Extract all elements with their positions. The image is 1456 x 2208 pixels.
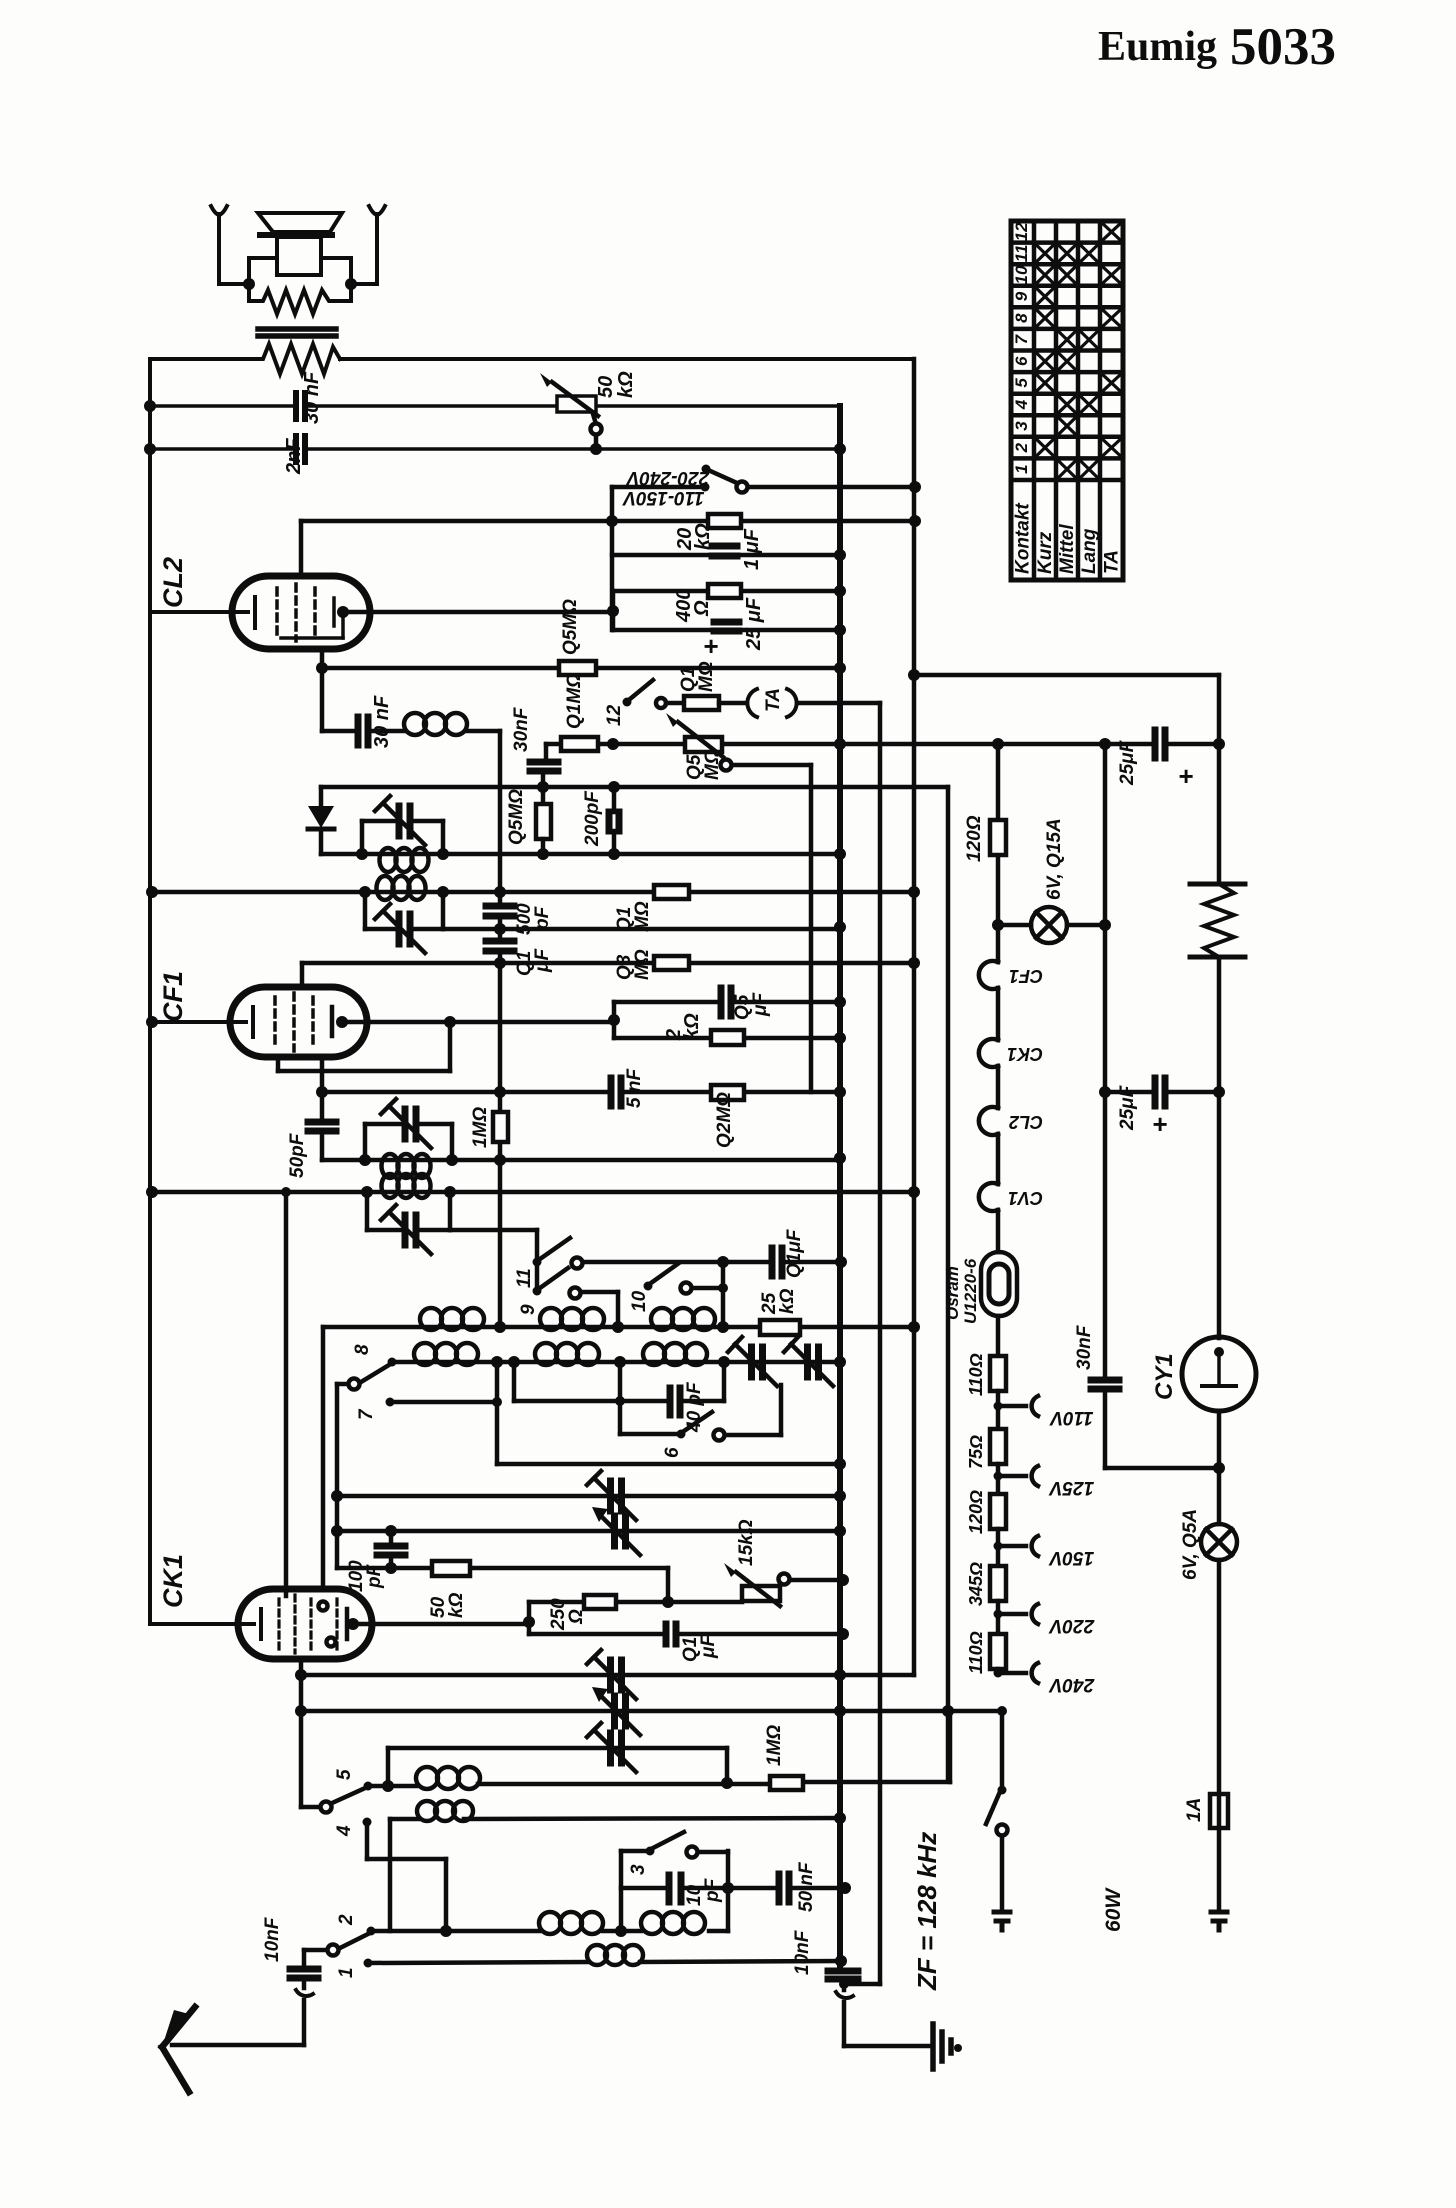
- node tank2 right: [437, 886, 449, 898]
- wire CK1 osc grid leg x=286: [284, 1192, 289, 1596]
- svg-text:CF1: CF1: [158, 971, 188, 1022]
- wire CL2 bottom lead x=322: [320, 649, 325, 731]
- resistor 120 Ohm heater: [990, 820, 1006, 855]
- svg-text:5: 5: [334, 1769, 355, 1780]
- node 388,1786: [382, 1780, 394, 1792]
- svg-text:1: 1: [336, 1967, 357, 1978]
- mains lead end: [1211, 1912, 1227, 1930]
- node CK1 anode bracket: [523, 1616, 535, 1628]
- antenna symbol: [162, 2007, 195, 2092]
- node screen line at x=915: [909, 515, 921, 527]
- node 15k wiper at bus: [837, 1574, 849, 1586]
- svg-text:+: +: [1178, 761, 1193, 791]
- wire AVC line y=787: [321, 785, 948, 790]
- node gang d at x=948: [942, 1705, 954, 1717]
- node 25uF at bus: [834, 624, 846, 636]
- trimmer capacitor padder 1: [728, 1337, 777, 1386]
- capacitor 10pF: [669, 1875, 681, 1902]
- tap 240V: [994, 1663, 1039, 1683]
- capacitor 25uF cathode: [714, 622, 739, 631]
- node 1105,744: [1099, 738, 1111, 750]
- svg-text:12: 12: [604, 704, 625, 726]
- wire CY1 cathode down: [1217, 1411, 1222, 1524]
- svg-text:9: 9: [518, 1304, 539, 1315]
- node 5nF line at bus: [834, 1086, 846, 1098]
- wire 0.1M line y=744: [546, 744, 1219, 760]
- node x=500 y=892: [494, 886, 506, 898]
- node tank4 left: [361, 1186, 373, 1198]
- node 301,1711: [295, 1705, 307, 1717]
- wire row A left leg to CK1: [321, 1327, 326, 1590]
- coil antenna MW: [417, 1801, 473, 1821]
- capacitor 5nF: [611, 1078, 621, 1106]
- wire 1uF line y=555: [612, 553, 840, 558]
- node 2k at bus: [834, 1032, 846, 1044]
- svg-text:1A: 1A: [1184, 1798, 1205, 1822]
- label 25uF-2 +: [1117, 1084, 1167, 1139]
- coil osc SW a: [539, 1912, 603, 1934]
- node 998,925: [992, 919, 1004, 931]
- wire bracket 400ohm/25uF x=613: [611, 591, 616, 630]
- resistor 250 Ohm: [584, 1595, 616, 1609]
- svg-text:Q1μF: Q1μF: [784, 1228, 805, 1278]
- wire antenna coil top bracket y=1748: [388, 1748, 727, 1786]
- wire x=950 to mains line: [948, 1711, 953, 1782]
- svg-text:10nF: 10nF: [792, 1929, 813, 1975]
- node 286,1192: [281, 1187, 291, 1197]
- CL2 grids (dashed): [277, 584, 315, 641]
- capacitor 30nF (output): [296, 393, 305, 419]
- svg-text:CL2: CL2: [158, 557, 188, 608]
- node 497,1362: [491, 1356, 503, 1368]
- wire 50k line y=1568: [337, 1568, 668, 1602]
- wire detector line y=854: [321, 852, 840, 857]
- wire chain seg: [996, 1464, 1001, 1494]
- svg-text:4: 4: [334, 1825, 355, 1837]
- wire TA to x=880: [799, 701, 880, 706]
- svg-text:Ω: Ω: [566, 1609, 587, 1625]
- svg-text:25 μF: 25 μF: [743, 597, 765, 651]
- CL2 anode and internal connection: [281, 598, 343, 638]
- svg-text:12: 12: [1012, 222, 1031, 241]
- svg-text:8: 8: [1012, 313, 1031, 323]
- node CF1 anode: [336, 1016, 348, 1028]
- svg-text:Mittel: Mittel: [1057, 524, 1078, 574]
- node 497,1402: [492, 1397, 502, 1407]
- speaker terminal hook left: [211, 206, 249, 284]
- tube CK1: [238, 1589, 372, 1659]
- wire TA jack: [719, 701, 745, 706]
- tube CL2: [232, 576, 370, 649]
- tuned circuit IF3 secondary: trimmer cap: [362, 796, 443, 854]
- svg-text:+: +: [1152, 1109, 1167, 1139]
- svg-text:110Ω: 110Ω: [966, 1353, 986, 1396]
- label Q1 uF: [514, 948, 553, 976]
- label 50 kOhm: [595, 371, 637, 398]
- switch contact 5: [301, 1782, 373, 1813]
- wire 5nF line y=1092: [322, 1090, 840, 1095]
- node row A at x=914: [908, 1321, 920, 1333]
- node 998,744: [992, 738, 1004, 750]
- wire HT bus x=840: [837, 406, 843, 1969]
- svg-text:7: 7: [1012, 333, 1031, 344]
- diode detector: [308, 787, 334, 854]
- svg-text:30 nF: 30 nF: [301, 371, 323, 424]
- svg-text:μF: μF: [532, 948, 553, 973]
- wire tank3 line y=1160: [365, 1158, 840, 1163]
- node band line at bus: [834, 1458, 846, 1470]
- resistor 1 MOhm vertical: [493, 1112, 508, 1142]
- variable capacitor gang d: [592, 1687, 640, 1735]
- resistor 0.3 MOhm: [654, 956, 689, 970]
- svg-text:μF: μF: [698, 1634, 719, 1659]
- wire IF2 line y=892: [152, 890, 914, 895]
- node 614,854: [608, 848, 620, 860]
- wire heater seg1: [996, 988, 1001, 1040]
- svg-text:6V, Q5A: 6V, Q5A: [1180, 1509, 1201, 1580]
- oscillator tank3 coil: [382, 1154, 431, 1178]
- switch contact 12: [623, 680, 685, 708]
- svg-text:TA: TA: [763, 688, 784, 712]
- svg-text:30 nF: 30 nF: [371, 695, 393, 748]
- wire tank4 bottom to band switch: [450, 1230, 537, 1291]
- capacitor 200pF: [609, 812, 619, 831]
- svg-text:Q2MΩ: Q2MΩ: [714, 1092, 735, 1148]
- wire 200pF leads: [612, 787, 617, 854]
- fuse 1A: [1210, 1794, 1228, 1828]
- label 50 kOhm osc: [428, 1592, 467, 1618]
- node 723,1327: [717, 1321, 729, 1333]
- svg-text:Q5MΩ: Q5MΩ: [560, 599, 581, 655]
- resistor 25 kOhm: [760, 1320, 800, 1335]
- label Q5 MOhm pot: [684, 749, 723, 780]
- svg-text:7: 7: [356, 1408, 377, 1420]
- node screen line bracket: [606, 515, 618, 527]
- capacitor 0.5uF: [721, 988, 731, 1016]
- svg-text:125V: 125V: [1048, 1477, 1094, 1498]
- node 400ohm at bus: [834, 585, 846, 597]
- node row B at bus: [834, 1356, 846, 1368]
- svg-text:25μF: 25μF: [1117, 739, 1138, 786]
- node 723,1262: [717, 1256, 729, 1268]
- node left rail 30nF line: [144, 400, 156, 412]
- wire band line y=1464: [497, 1462, 840, 1467]
- wire AVC switch line y=1262: [583, 1260, 768, 1265]
- wire grid line y=963: [302, 961, 914, 966]
- wire coil row A y=1327: [323, 1325, 914, 1330]
- label Q3 MOhm: [614, 949, 653, 980]
- svg-text:1 μF: 1 μF: [741, 528, 763, 570]
- label 400 Ohm: [673, 589, 713, 623]
- wire chain seg: [996, 1529, 1001, 1566]
- svg-text:220V: 220V: [1048, 1615, 1095, 1636]
- svg-text:kΩ: kΩ: [681, 1013, 703, 1040]
- wire CL2 screen line y=521: [301, 521, 915, 576]
- svg-text:MΩ: MΩ: [696, 661, 717, 692]
- switch contact 1: [364, 1959, 373, 1968]
- node 668,1602: [662, 1596, 674, 1608]
- label 100 pF: [346, 1560, 385, 1592]
- svg-text:CL2: CL2: [1009, 1112, 1043, 1132]
- coil A1: [420, 1308, 484, 1330]
- tank4 trimmer cap below: [367, 1192, 450, 1254]
- CK1 cathode lead: [150, 1609, 261, 1639]
- wire switch7 tap x=497: [495, 1362, 500, 1464]
- wire x=1105 down: [1105, 744, 1219, 1468]
- coil B1: [414, 1343, 478, 1365]
- svg-text:75Ω: 75Ω: [966, 1435, 986, 1469]
- svg-text:9: 9: [1012, 291, 1031, 301]
- label Osram U1220-6: [943, 1258, 980, 1324]
- svg-text:10: 10: [629, 1290, 650, 1312]
- svg-text:1: 1: [1012, 464, 1031, 473]
- svg-text:CV1: CV1: [1008, 1188, 1043, 1208]
- svg-text:kΩ: kΩ: [446, 1592, 467, 1618]
- mains voltage selector switch 110-150V / 220-240V: [612, 465, 915, 493]
- svg-text:U1220-6: U1220-6: [961, 1258, 980, 1324]
- svg-text:+: +: [703, 631, 718, 661]
- node gang a at bus: [834, 1490, 846, 1502]
- svg-text:pF: pF: [702, 1877, 723, 1903]
- node left rail 2nF line: [144, 443, 156, 455]
- wire coil row y=1931: [371, 1929, 728, 1934]
- CK1 anode: [345, 1609, 350, 1639]
- wire 25uF-2 line y=1092: [1105, 1090, 1219, 1095]
- node 723,1288: [718, 1283, 728, 1293]
- heater CL2: [979, 1107, 998, 1135]
- label 250 Ohm: [548, 1598, 587, 1631]
- tank4 coil: [382, 1174, 431, 1198]
- node 728,1888: [722, 1882, 734, 1894]
- svg-text:MΩ: MΩ: [632, 949, 653, 980]
- switch mains on/off: [986, 1711, 1008, 1912]
- title Eumig 5033: [1098, 18, 1336, 76]
- node CK1 anode: [347, 1618, 359, 1630]
- wire chain seg: [996, 1601, 1001, 1634]
- capacitor 50nF: [779, 1874, 789, 1902]
- mains switch lead end: [994, 1912, 1010, 1930]
- label Q5 uF: [732, 992, 771, 1020]
- node 914,675: [908, 669, 920, 681]
- switch contact 9: [533, 1268, 619, 1327]
- capacitor 0.1uF cathode CK1: [666, 1624, 676, 1644]
- svg-text:Kurz: Kurz: [1035, 531, 1056, 574]
- node selector at x=915: [909, 481, 921, 493]
- label 25 kOhm: [759, 1288, 798, 1315]
- capacitor 30nF coupling: [358, 717, 368, 745]
- CL2 cathode: [150, 597, 255, 628]
- node left rail 1192: [146, 1186, 158, 1198]
- wire heater seg2: [996, 1066, 1001, 1108]
- svg-text:MΩ: MΩ: [702, 749, 723, 780]
- resistor 2 kOhm: [711, 1030, 744, 1045]
- svg-text:6: 6: [1012, 356, 1031, 366]
- potentiometer 50 kOhm volume: [540, 373, 602, 449]
- wire CF1 bottom lead: [320, 1057, 325, 1117]
- tap 150V: [994, 1536, 1039, 1556]
- barretter Osram U1220-6: [981, 1252, 1017, 1316]
- heater CY1: [979, 1183, 998, 1211]
- resistor 0.1 MOhm: [561, 737, 598, 751]
- node 543,854: [537, 848, 549, 860]
- node below 10nF: [839, 1979, 849, 1989]
- variable capacitor gang a: [587, 1471, 636, 1520]
- node CL2 bottom y=668: [316, 662, 328, 674]
- svg-text:11: 11: [1012, 245, 1031, 263]
- wire bracket 2k/0.5uF x=614: [612, 1002, 617, 1038]
- wire 10pF loop: [621, 1851, 728, 1931]
- resistor 110Ohm dropper: [990, 1634, 1006, 1669]
- jack TA right contact: [787, 689, 797, 717]
- node 1uF at bus: [834, 549, 846, 561]
- resistor speaker field winding: [258, 344, 340, 374]
- node coil row 1819 at bus: [834, 1812, 846, 1824]
- wire 2k line y=1038: [614, 1036, 840, 1041]
- svg-text:345Ω: 345Ω: [966, 1562, 986, 1606]
- node 1002,1711: [997, 1706, 1007, 1716]
- node 621,1931: [615, 1925, 627, 1937]
- svg-text:Osram: Osram: [943, 1266, 962, 1320]
- tuned circuit IF2 primary coil: [377, 876, 426, 900]
- jack TA left contact: [747, 689, 757, 717]
- ground symbol: [933, 2024, 962, 2069]
- node 727,1783: [721, 1777, 733, 1789]
- potentiometer 15kOhm: [724, 1563, 843, 1606]
- svg-text:10: 10: [1012, 265, 1031, 284]
- label 20 kOhm: [674, 523, 714, 551]
- wire selector bracket x=612: [610, 487, 615, 630]
- lamp 6V 0.5A: [1201, 1524, 1237, 1560]
- wire CK1 anode line y=1624: [353, 1622, 529, 1627]
- label Q1 MOhm AVC2: [614, 901, 653, 932]
- node CF1 anode line x=450: [444, 1016, 456, 1028]
- svg-text:4: 4: [1012, 399, 1031, 410]
- transformer core bars: [258, 329, 336, 336]
- coil osc SW b: [641, 1912, 705, 1934]
- wire 2nF line y=449: [150, 447, 840, 451]
- lamp 6V 0.15A: [998, 907, 1105, 943]
- variable capacitor gang e: [587, 1723, 636, 1772]
- switch contact 2: [304, 1927, 376, 1967]
- node left rail CF1: [146, 1016, 158, 1028]
- svg-text:Eumig: Eumig: [1098, 24, 1217, 70]
- label 10 pF: [684, 1877, 723, 1906]
- wire gang line y=1711: [301, 1709, 1002, 1714]
- capacitor 50pF: [308, 1122, 336, 1131]
- node 0.5uF at bus: [834, 996, 846, 1008]
- svg-text:30nF: 30nF: [511, 706, 532, 752]
- node 514,1362: [508, 1356, 520, 1368]
- svg-text:240V: 240V: [1048, 1674, 1095, 1695]
- switch contact 7: [386, 1398, 498, 1407]
- coil B2: [535, 1343, 599, 1365]
- wire 0.5uF line y=1002: [614, 1000, 840, 1005]
- wire gang line y=1496: [337, 1494, 840, 1499]
- capacitor 10nF antenna: [290, 1969, 318, 1978]
- wire 30nF to line787: [541, 771, 546, 804]
- tuned circuit IF3 coil: [380, 848, 429, 872]
- wire CF1 anode line y=1022: [342, 1020, 614, 1025]
- node 500,964: [494, 957, 506, 969]
- svg-text:μF: μF: [750, 992, 771, 1017]
- trimmer capacitor padder 2: [784, 1337, 833, 1386]
- coil antenna SW: [587, 1945, 643, 1965]
- speaker voice-coil loop: [249, 258, 351, 301]
- node 50nF at bus: [839, 1882, 851, 1894]
- wire 25uF line y=630: [613, 628, 840, 633]
- resistor 20 kOhm: [708, 514, 741, 528]
- wire right rail ballast to CY1: [1217, 957, 1222, 1338]
- node gang c at bus: [834, 1669, 846, 1681]
- svg-text:50pF: 50pF: [287, 1132, 308, 1178]
- wire 0.5M to line 854: [541, 839, 546, 854]
- wire mid-caps line y=929: [443, 927, 840, 932]
- svg-text:1MΩ: 1MΩ: [470, 1107, 491, 1148]
- node 929 at bus: [834, 921, 846, 933]
- coil B3: [643, 1343, 707, 1365]
- node tank3 right: [446, 1154, 458, 1166]
- CK1 grids (dashed): [279, 1595, 337, 1653]
- node 0.1uF at bus: [837, 1628, 849, 1640]
- node 2nF line at HT bus: [834, 443, 846, 455]
- node 500,929: [494, 923, 506, 935]
- speaker terminal hook right: [351, 206, 385, 284]
- resistor 1 MOhm antenna: [770, 1776, 803, 1790]
- wire CL2 grid line y=668: [322, 666, 840, 671]
- node 0.1M line at bus: [834, 738, 846, 750]
- tap 125V: [994, 1466, 1039, 1486]
- svg-text:Q1MΩ: Q1MΩ: [564, 673, 585, 729]
- wire top bus y=359: [150, 357, 913, 361]
- CF1 grids (dashed): [275, 993, 313, 1051]
- svg-text:2nF: 2nF: [283, 438, 305, 475]
- tap 220V: [994, 1604, 1039, 1624]
- capacitor 30nF AVC: [530, 762, 558, 771]
- table contact numbers 1-12: [1012, 222, 1031, 474]
- svg-text:6V, Q15A: 6V, Q15A: [1044, 818, 1065, 900]
- capacitor 40pF: [670, 1388, 680, 1415]
- svg-text:110-150V: 110-150V: [622, 487, 704, 508]
- resistor 110Ohm dropper: [990, 1356, 1006, 1391]
- switch contact table: [1011, 221, 1123, 580]
- node 0.1uF at bus: [835, 1256, 847, 1268]
- wire fuse to mains end: [1217, 1828, 1222, 1912]
- resistor 75Ohm dropper: [990, 1429, 1006, 1464]
- tube CF1: [230, 987, 367, 1057]
- wire vertical x=948: [946, 787, 951, 1781]
- wire 0.1uF line y=1634: [529, 1632, 843, 1637]
- label 25uF +: [703, 597, 765, 661]
- svg-text:5 nF: 5 nF: [624, 1068, 645, 1108]
- node tank3 left: [359, 1154, 371, 1166]
- resistor 50 kOhm: [432, 1561, 470, 1576]
- svg-text:60W: 60W: [1102, 1887, 1125, 1932]
- node 301,1675: [295, 1669, 307, 1681]
- svg-text:25μF: 25μF: [1117, 1084, 1138, 1131]
- resistor 345Ohm dropper: [990, 1566, 1006, 1601]
- resistor 0.5 MOhm vertical: [536, 804, 551, 839]
- svg-text:5033: 5033: [1230, 18, 1336, 76]
- svg-text:150V: 150V: [1048, 1547, 1094, 1568]
- node speaker terminal left: [243, 278, 255, 290]
- node 337,1531: [331, 1525, 343, 1537]
- oscillator tank3 trimmer cap: [365, 1099, 452, 1160]
- node CL2 anode line bracket: [607, 605, 619, 617]
- svg-text:220-240V: 220-240V: [625, 467, 710, 488]
- node 391,1568: [385, 1562, 397, 1574]
- svg-text:Q5MΩ: Q5MΩ: [506, 789, 527, 845]
- switch contact 8: [337, 1358, 397, 1569]
